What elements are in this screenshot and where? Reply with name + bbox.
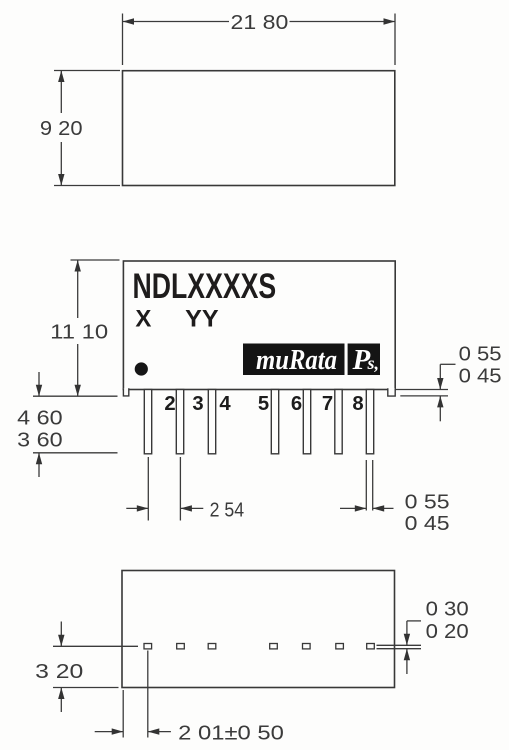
svg-text:2: 2 xyxy=(164,393,175,415)
svg-text:2 54: 2 54 xyxy=(210,498,245,521)
svg-text:muRata: muRata xyxy=(256,345,337,376)
svg-text:7: 7 xyxy=(322,393,333,415)
svg-text:0 30: 0 30 xyxy=(426,597,469,620)
svg-text:6: 6 xyxy=(291,393,302,415)
svg-text:s,: s, xyxy=(367,353,380,373)
svg-text:21 80: 21 80 xyxy=(231,11,289,34)
svg-text:3 20: 3 20 xyxy=(35,660,83,683)
svg-text:3 60: 3 60 xyxy=(17,429,63,452)
svg-text:11 10: 11 10 xyxy=(50,321,108,344)
svg-text:0 55: 0 55 xyxy=(405,490,450,513)
svg-text:0 45: 0 45 xyxy=(405,512,450,535)
svg-text:0 45: 0 45 xyxy=(459,364,502,387)
svg-text:NDLXXXXS: NDLXXXXS xyxy=(133,267,277,306)
svg-text:X: X xyxy=(135,305,151,332)
svg-text:8: 8 xyxy=(352,393,363,415)
svg-text:9 20: 9 20 xyxy=(40,117,83,140)
svg-text:5: 5 xyxy=(258,393,269,415)
svg-text:YY: YY xyxy=(185,305,219,332)
svg-text:0 20: 0 20 xyxy=(426,620,469,643)
svg-text:4: 4 xyxy=(219,393,231,415)
svg-text:3: 3 xyxy=(192,393,203,415)
svg-text:4 60: 4 60 xyxy=(17,407,63,430)
svg-text:0 55: 0 55 xyxy=(459,342,502,365)
svg-text:2 01±0 50: 2 01±0 50 xyxy=(178,722,284,745)
